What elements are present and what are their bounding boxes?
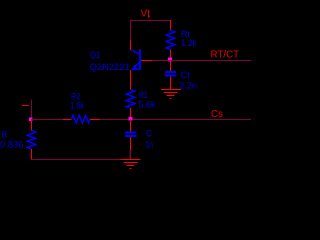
svg-text:RT/CT: RT/CT — [211, 50, 240, 61]
svg-text:0.836: 0.836 — [0, 139, 24, 149]
resistor R2 zigzag — [72, 115, 90, 123]
wire Cs rail right — [100, 119, 252, 121]
resistor R2 pin left — [63, 119, 72, 121]
transistor Q1 emitter pin — [130, 70, 132, 90]
capacitor Ct pin bottom — [170, 76, 172, 89]
capacitor C pin top — [130, 120, 132, 132]
svg-text:5.6k: 5.6k — [139, 100, 156, 110]
transistor Q1 collector pin — [130, 40, 132, 50]
svg-text:C: C — [146, 128, 152, 138]
wire Cs rail left — [31, 119, 63, 121]
capacitor Ct plates — [165, 72, 176, 76]
capacitor C plates — [125, 133, 136, 136]
resistor R1 pin bottom — [130, 108, 132, 118]
svg-text:Ct: Ct — [181, 70, 191, 80]
svg-text:Cs: Cs — [211, 109, 223, 120]
transistor Q1 base pin — [141, 60, 152, 62]
node left junction dot — [29, 118, 33, 122]
wire RT/CT rail — [152, 60, 251, 62]
resistor R1 zigzag — [126, 90, 135, 108]
svg-text:2.2n: 2.2n — [179, 81, 197, 91]
minus terminal mark — [22, 105, 29, 107]
net label Vt stem tick — [148, 16, 150, 18]
transistor Q1 base bar — [139, 49, 141, 69]
capacitor Ct pin top — [170, 61, 172, 72]
resistor R pin bottom — [31, 149, 33, 160]
ground at bottom — [121, 160, 141, 169]
resistor R2 pin right — [90, 119, 100, 121]
transistor Q1 emitter diagonal — [133, 62, 139, 68]
svg-text:R1: R1 — [139, 90, 148, 100]
wire left source drop — [31, 100, 33, 120]
capacitor C pin bottom — [130, 137, 132, 150]
svg-text:1.5k: 1.5k — [70, 100, 85, 110]
svg-text:Q1: Q1 — [90, 50, 100, 60]
ground at Ct — [161, 90, 181, 99]
resistor R pin top — [31, 120, 33, 131]
wire collector drop — [130, 21, 132, 41]
transistor Q1 emitter arrow — [132, 65, 137, 70]
resistor Rt pin bottom — [170, 50, 172, 60]
wire C to ground — [129, 150, 131, 159]
node RT/CT junction dot — [168, 58, 172, 62]
resistor Rt pin top — [170, 20, 172, 30]
svg-text:1.2k: 1.2k — [181, 38, 197, 48]
transistor Q1 emitter bottom segment — [132, 68, 140, 70]
svg-text:Q2N2221: Q2N2221 — [90, 62, 130, 72]
node middle junction dot — [129, 117, 133, 121]
wire bottom rail — [32, 159, 122, 161]
wire top rail — [130, 20, 170, 22]
transistor Q1 collector diagonal — [131, 50, 140, 54]
svg-text:1n: 1n — [145, 139, 153, 149]
resistor R zigzag — [27, 131, 36, 149]
resistor Rt zigzag — [166, 30, 175, 49]
